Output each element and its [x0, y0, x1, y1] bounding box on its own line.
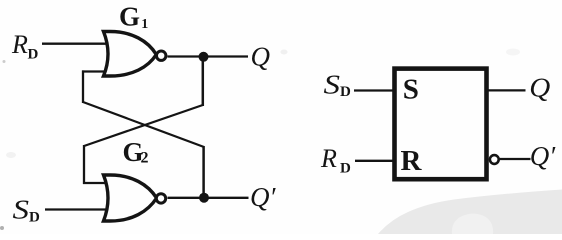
label G1	[119, 2, 148, 32]
NOR gate G1	[104, 32, 157, 77]
label R_D (right)	[320, 144, 351, 177]
wire: Q' output (right)	[500, 158, 531, 160]
wire: R_D to latch box	[355, 160, 394, 162]
svg-text:G: G	[119, 2, 140, 32]
label G2	[123, 137, 149, 167]
wire: horizontal feedback into G2 upper input	[83, 182, 114, 184]
SR latch box U1	[395, 69, 487, 180]
label Q (left)	[251, 41, 271, 71]
wire: vertical from Q' node up	[202, 146, 205, 198]
node: Q' junction dot	[199, 193, 209, 203]
label Q' (right)	[530, 141, 556, 171]
NOR gate G2	[104, 175, 157, 221]
wire: R_D input to G1	[42, 43, 114, 45]
wire: Q output	[168, 55, 249, 57]
svg-text:Q: Q	[251, 41, 271, 71]
svg-text:1: 1	[141, 17, 148, 32]
label Q' (left)	[250, 182, 276, 212]
bubble on Q' pin	[490, 155, 499, 164]
wire: horizontal feedback into G1 lower input	[82, 70, 114, 72]
svg-text:Q′: Q′	[250, 182, 276, 212]
svg-text:R: R	[11, 30, 28, 59]
output bubble of G1	[157, 51, 166, 60]
svg-text:D: D	[29, 210, 40, 226]
wire: diagonal from Q side down-left	[84, 105, 203, 146]
label Q (right)	[529, 72, 550, 102]
svg-text:D: D	[340, 160, 351, 176]
svg-text:R: R	[320, 144, 337, 173]
label S_D (right)	[324, 70, 352, 100]
svg-text:R: R	[401, 145, 423, 177]
label pin R	[401, 145, 423, 177]
svg-text:D: D	[28, 47, 39, 63]
output bubble of G2	[156, 194, 165, 203]
svg-text:2: 2	[141, 150, 149, 167]
svg-text:D: D	[340, 84, 351, 100]
node: Q junction dot	[199, 52, 209, 62]
wire: Q' output	[168, 197, 249, 199]
label S_D (left)	[13, 195, 41, 226]
wire: vertical feedback left upper (to G1 input)	[82, 70, 84, 103]
wire: S_D input to G2	[45, 208, 114, 210]
wire: vertical left lower (to G2 input)	[83, 145, 85, 184]
svg-text:S: S	[13, 195, 30, 225]
svg-text:S: S	[403, 73, 419, 105]
wire: S_D to latch box	[354, 89, 394, 91]
wire: Q output (right)	[488, 89, 526, 91]
wire: diagonal from Q' side up-left	[83, 102, 204, 147]
wire: vertical from Q node down	[202, 57, 205, 107]
label pin S	[403, 73, 419, 105]
svg-text:S: S	[324, 70, 341, 100]
svg-text:Q′: Q′	[530, 141, 556, 171]
svg-text:Q: Q	[529, 72, 550, 102]
label R_D (left)	[11, 30, 39, 63]
